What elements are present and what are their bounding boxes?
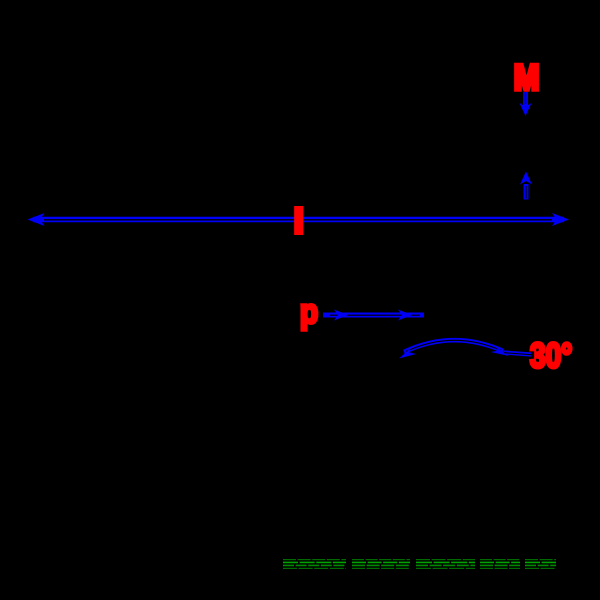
svg-text:M: M (514, 57, 539, 97)
svg-text:30°: 30° (530, 335, 572, 375)
svg-text:I: I (294, 200, 304, 241)
svg-text:p: p (300, 292, 318, 330)
